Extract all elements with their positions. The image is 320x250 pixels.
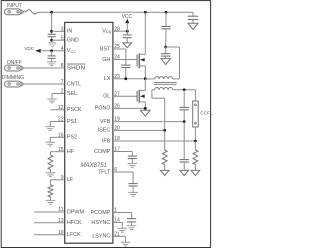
- ground E6: [46, 200, 56, 204]
- pin 5 GND label: [61, 35, 79, 43]
- wire node A to primary: [166, 47, 180, 79]
- svg-text:22: 22: [58, 117, 64, 123]
- wire pin13 HFCK: [34, 222, 65, 224]
- wire VFB to C8: [183, 122, 185, 160]
- pin 23 LX label: [104, 74, 120, 82]
- svg-text:8: 8: [61, 63, 64, 69]
- svg-text:ISEC: ISEC: [98, 128, 111, 134]
- svg-text:4: 4: [61, 46, 64, 52]
- wire pin24 GH: [113, 59, 137, 61]
- wire pin7 CNTL: [24, 83, 65, 85]
- wire pin5 GND: [52, 39, 65, 41]
- resistor R2 LF: [48, 185, 53, 197]
- ground T3: [161, 59, 171, 65]
- wire J1 to fuse: [24, 11, 26, 13]
- wire node A to C6: [165, 47, 167, 54]
- label MAX8751: [81, 162, 107, 169]
- wire C6 to ground: [165, 56, 167, 59]
- svg-text:13: 13: [58, 218, 64, 224]
- wire C1 to GND node: [51, 37, 53, 41]
- wire R1 to ground: [50, 170, 52, 173]
- pin 9 LF label: [61, 175, 74, 183]
- op-amp U1 MAX8751 box: [65, 22, 113, 243]
- wire pin20 ISEC: [113, 129, 165, 131]
- svg-text:LSYNC: LSYNC: [92, 234, 110, 240]
- ground E11: [121, 242, 131, 246]
- node LX-BST: [124, 77, 127, 80]
- connector J1 INPUT: [5, 9, 24, 15]
- capacitor C6 divider lower: [161, 54, 170, 56]
- node IN: [50, 30, 53, 33]
- svg-text:GH: GH: [102, 57, 110, 63]
- wire pin26 PGND: [113, 107, 145, 109]
- wire pin9 LF: [51, 180, 65, 185]
- node A divider mid: [164, 46, 167, 49]
- resistor R1 HF: [48, 155, 53, 170]
- wire Q1 drain to rail: [144, 12, 146, 54]
- node secondary-cap: [183, 88, 186, 91]
- capacitor C10 TFLT: [129, 184, 138, 186]
- svg-text:16: 16: [58, 132, 64, 138]
- svg-text:PS2: PS2: [67, 135, 77, 141]
- ground T1: [188, 23, 198, 29]
- wire IFB to R4: [194, 141, 196, 150]
- svg-text:INPUT: INPUT: [7, 3, 22, 9]
- svg-text:SHDN: SHDN: [67, 66, 85, 72]
- svg-text:PCOMP: PCOMP: [91, 210, 111, 216]
- svg-text:PGND: PGND: [95, 106, 111, 112]
- capacitor C3 VDD bypass: [123, 35, 132, 38]
- wire pin12 PSCK: [51, 109, 65, 111]
- wire ISEC to R3: [164, 130, 166, 150]
- svg-text:VCC: VCC: [122, 14, 133, 20]
- label ON/FF: [7, 60, 22, 66]
- node ISEC: [163, 129, 166, 132]
- svg-text:15: 15: [58, 147, 64, 153]
- svg-text:IN: IN: [67, 29, 72, 35]
- node IFB: [194, 140, 197, 143]
- pin 4 VCC label: [61, 46, 76, 54]
- svg-text:BST: BST: [100, 46, 111, 52]
- wire rail end to C12: [192, 12, 194, 16]
- ground T5: [160, 170, 169, 175]
- wire pin4 VCC: [41, 50, 65, 52]
- svg-text:GND: GND: [67, 38, 79, 44]
- node rail-Cdiv: [165, 11, 168, 14]
- wire C3 to ground: [126, 38, 128, 43]
- svg-text:7: 7: [61, 79, 64, 85]
- svg-text:SEL: SEL: [67, 91, 77, 97]
- svg-text:HSYNC: HSYNC: [91, 220, 110, 226]
- wire C11 to ground: [131, 222, 133, 226]
- wire Q2 source to PGND: [144, 102, 146, 109]
- pin 14 HSYNC label: [91, 218, 120, 226]
- svg-text:TFLT: TFLT: [98, 169, 111, 175]
- wire pin25 BST: [113, 49, 126, 65]
- wire C8 to ground: [183, 162, 185, 170]
- wire C4 to LX: [125, 68, 127, 79]
- node rail-Q1drain: [144, 11, 147, 14]
- wire VDD node to C3: [126, 31, 128, 35]
- transformer T1 secondary: [152, 88, 196, 90]
- ground gray ghost: [48, 43, 56, 48]
- ground T7: [191, 170, 200, 175]
- ground E9: [127, 226, 137, 230]
- wire pin28 VDD: [113, 30, 127, 32]
- svg-text:LX: LX: [104, 76, 111, 82]
- capacitor C12 input HV: [188, 16, 199, 19]
- wire C9 to ground: [131, 159, 133, 164]
- label DIMMING: [2, 75, 24, 81]
- wire Q1 source to LX: [144, 66, 146, 79]
- wire R2 to ground: [50, 197, 52, 201]
- wire C7 to VFB: [183, 110, 185, 122]
- svg-text:9: 9: [61, 175, 64, 181]
- capacitor C7 resonant: [180, 90, 189, 110]
- wire pin17 COMP: [113, 152, 132, 157]
- svg-text:PS1: PS1: [67, 119, 77, 125]
- svg-text:PSCK: PSCK: [67, 107, 82, 113]
- capacitor C4 BST: [121, 65, 130, 67]
- wire pin27 GL: [113, 95, 137, 97]
- pin 8 SHDN label: [61, 63, 85, 71]
- wire pin18 IFB: [113, 140, 195, 142]
- wire pin2 SEL: [52, 94, 65, 100]
- label VDC: [24, 46, 35, 51]
- pin 19 VFB label: [100, 117, 120, 125]
- wire pin22 PS1: [50, 122, 64, 127]
- ground E4: [45, 142, 55, 146]
- wire Q2 drain to LX: [144, 79, 146, 91]
- node VCC: [50, 49, 53, 52]
- resistor R4 IFB: [193, 150, 198, 165]
- ground E7: [128, 163, 138, 167]
- capacitor C1 input: [48, 34, 56, 36]
- pin 24 GH label: [102, 55, 120, 63]
- transistor Q1 high-side NMOS: [137, 53, 145, 68]
- svg-text:GL: GL: [103, 94, 110, 100]
- wire C10 to ground: [132, 186, 134, 192]
- pin 11 DPWM label: [58, 207, 84, 215]
- wire rail to IN node: [51, 12, 53, 34]
- wire pin10 LFCK: [34, 234, 65, 236]
- pin 17 COMP label: [94, 147, 120, 155]
- svg-text:VFB: VFB: [100, 119, 111, 125]
- wire pin23 LX: [113, 78, 145, 80]
- ground E3: [45, 127, 55, 131]
- pin 21 LSYNC label: [92, 231, 120, 239]
- label INPUT: [7, 3, 22, 9]
- wire R4 to ground: [194, 165, 196, 171]
- svg-text:IFB: IFB: [102, 138, 111, 144]
- border frame: [1, 1, 210, 248]
- fuse F1: [26, 10, 38, 14]
- ground E8: [128, 192, 138, 196]
- svg-text:5: 5: [61, 35, 64, 41]
- wire pin16 PS2: [50, 137, 64, 142]
- ground T4 PGND: [141, 110, 151, 116]
- wire pin11 DPWM: [34, 211, 65, 213]
- svg-text:DPWM: DPWM: [67, 209, 85, 215]
- svg-text:DIMMING: DIMMING: [2, 75, 24, 81]
- ground T6: [180, 170, 189, 175]
- svg-text:VDC: VDC: [24, 46, 35, 51]
- connector J2 ON/FF: [5, 65, 24, 71]
- pin 22 PS1 label: [58, 117, 77, 125]
- arrow VCC up: [125, 19, 129, 32]
- wire VCC to C2: [51, 51, 53, 56]
- svg-text:10: 10: [58, 230, 64, 236]
- transformer T1 primary: [145, 77, 179, 79]
- node VFB: [183, 120, 186, 123]
- wire input rail: [38, 11, 193, 13]
- svg-text:3: 3: [61, 26, 64, 32]
- wire pin15 HF: [51, 152, 65, 155]
- svg-text:12: 12: [58, 105, 64, 111]
- svg-text:2: 2: [61, 89, 64, 95]
- wire pin6 TFLT: [113, 172, 133, 184]
- wire C12 to ground: [192, 20, 194, 23]
- wire pin21 LSYNC: [113, 236, 126, 242]
- ground T2: [123, 43, 132, 48]
- capacitor C9 COMP: [128, 156, 137, 158]
- pin 20 ISEC label: [98, 126, 120, 134]
- svg-text:CNTL: CNTL: [67, 81, 81, 87]
- svg-text:CC: CC: [71, 50, 77, 54]
- transistor Q2 low-side NMOS: [137, 90, 145, 103]
- svg-text:CCFL: CCFL: [200, 111, 213, 117]
- pin 7 CNTL label: [61, 79, 81, 87]
- label VCC top: [122, 14, 133, 20]
- capacitor C5 divider upper: [161, 26, 170, 28]
- lamp CCFL: [193, 101, 199, 127]
- wire pin1 PCOMP: [113, 213, 132, 219]
- ground E1: [47, 62, 57, 66]
- wire pin3 IN: [52, 30, 65, 32]
- ground E2: [47, 99, 57, 103]
- wire C5 to node A: [165, 29, 167, 47]
- svg-text:COMP: COMP: [94, 149, 111, 155]
- transformer T1 core: [154, 83, 177, 85]
- wire R3 to ground: [164, 165, 166, 171]
- pin 26 PGND label: [95, 104, 120, 112]
- node VDD bypass: [126, 30, 129, 33]
- svg-text:DD: DD: [106, 30, 112, 34]
- pin 28 VDD label: [102, 26, 120, 34]
- ground E10: [118, 228, 128, 232]
- svg-text:LF: LF: [67, 177, 74, 183]
- label CCFL: [200, 111, 213, 117]
- node GND: [50, 39, 53, 42]
- arrow VDC left: [35, 49, 41, 53]
- pin 15 HF label: [58, 147, 75, 155]
- svg-text:HFCK: HFCK: [67, 220, 82, 226]
- wire secondary low side: [152, 90, 165, 131]
- svg-text:11: 11: [58, 207, 63, 213]
- capacitor C8 VFB divider: [180, 160, 189, 162]
- pin 2 SEL label: [61, 89, 77, 97]
- pin 16 PS2 label: [58, 132, 77, 140]
- svg-text:HF: HF: [67, 149, 75, 155]
- pin 12 PSCK label: [58, 105, 82, 113]
- pin 6 TFLT label: [98, 167, 117, 175]
- node LX-FET: [144, 77, 147, 80]
- resistor R3 ISEC: [162, 150, 167, 165]
- wire pin8 SHDN: [24, 67, 65, 69]
- pin 18 IFB label: [102, 136, 120, 144]
- wire C2 to ground: [51, 58, 53, 62]
- capacitor C11 PCOMP: [127, 219, 136, 222]
- pin 27 GL label: [103, 91, 120, 99]
- wire lamp to IFB: [194, 127, 196, 141]
- node PGND: [144, 107, 147, 110]
- pin 13 HFCK label: [58, 218, 82, 226]
- connector J3 DIMMING: [5, 81, 24, 87]
- wire pin14 HSYNC: [113, 223, 123, 229]
- svg-text:LFCK: LFCK: [67, 232, 81, 238]
- pin 3 IN label: [61, 26, 73, 34]
- capacitor C2 VCC bypass: [48, 56, 56, 58]
- wire pin19 VFB: [113, 121, 184, 123]
- wire rail to C5: [165, 12, 167, 26]
- svg-text:MAX8751: MAX8751: [81, 162, 107, 169]
- pin 25 BST label: [100, 44, 120, 52]
- pin 10 LFCK label: [58, 230, 81, 238]
- wire secondary to lamp: [194, 90, 196, 101]
- node input-left: [50, 11, 53, 14]
- pin 1 PCOMP label: [91, 208, 118, 216]
- ground E5: [46, 173, 56, 177]
